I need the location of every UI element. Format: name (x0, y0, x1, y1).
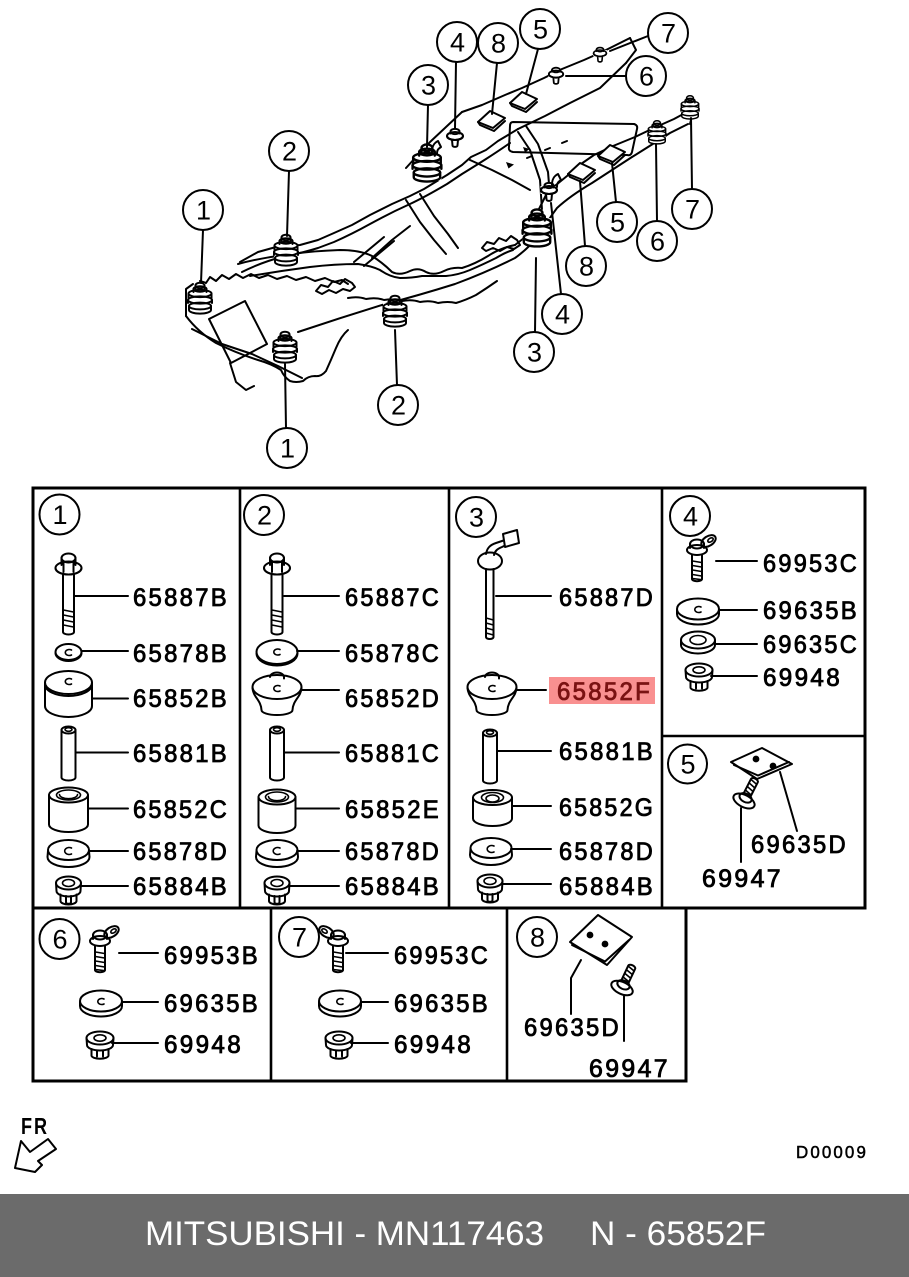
callout 1 front (183, 190, 223, 230)
svg-text:65852E: 65852E (345, 796, 441, 824)
svg-text:69635D: 69635D (751, 831, 848, 859)
leader 8 mid (580, 181, 585, 246)
cushion 65852G (473, 790, 512, 826)
highlight 65852F (549, 677, 655, 704)
footer gray bar (0, 1194, 909, 1277)
callout circle 3 (456, 497, 496, 537)
bracket hook 3 top (432, 141, 441, 154)
mount cushion 1 bottom (273, 332, 297, 363)
leader 69635B (719, 609, 757, 611)
cushion 65852F (468, 673, 517, 716)
svg-text:69635B: 69635B (763, 597, 859, 625)
leader 69948 (711, 675, 757, 677)
leader 65881C (284, 752, 339, 754)
frame far rail rear top flange (462, 38, 630, 112)
frame far rail rear end edge (626, 38, 636, 63)
screw 69947 (609, 960, 643, 998)
frame rear inner panel line (470, 160, 530, 190)
callout 8 top (478, 23, 518, 63)
svg-text:69635B: 69635B (394, 990, 490, 1018)
leader 69635D (780, 772, 797, 831)
svg-text:69953C: 69953C (394, 942, 490, 970)
leader 65887B (75, 595, 128, 597)
washer 65878D (48, 840, 90, 867)
divider col3/col4 (661, 488, 664, 908)
washer 69635B (677, 599, 719, 625)
plate 69635D (570, 915, 632, 965)
svg-text:N - 65852F: N - 65852F (590, 1215, 766, 1253)
svg-text:65887B: 65887B (133, 584, 229, 612)
frame rear rail tabs (527, 141, 567, 158)
svg-text:6: 6 (650, 227, 665, 257)
callout circle 4 (670, 496, 710, 536)
bolt 69953C (687, 540, 707, 582)
leader 69635B (122, 1001, 158, 1003)
svg-text:65878B: 65878B (133, 640, 229, 668)
callout circle 2 (244, 495, 284, 535)
pad plate 8 top (478, 111, 505, 131)
nut 69948 (326, 1032, 353, 1059)
leader 6 right (656, 144, 657, 221)
svg-text:8: 8 (579, 252, 594, 282)
svg-text:1: 1 (196, 196, 211, 226)
leader 69947 (740, 808, 742, 862)
divider cell6/7 (270, 908, 273, 1081)
spacer 65881B (483, 730, 497, 784)
svg-text:65852F: 65852F (557, 678, 652, 706)
callout 3 bottom (514, 332, 554, 372)
divider cell4/cell5 (662, 735, 865, 738)
leader 5 top (526, 49, 538, 94)
svg-text:65887D: 65887D (559, 584, 655, 612)
callout 5 top (520, 9, 560, 49)
svg-text:7: 7 (661, 19, 676, 49)
callout 8 mid (566, 246, 606, 286)
svg-text:69635D: 69635D (524, 1014, 621, 1042)
screw 69947 (731, 774, 766, 812)
frame front opening (209, 301, 267, 363)
frame near rail second edge (250, 250, 513, 278)
leader 65887D (496, 595, 551, 597)
svg-text:65878C: 65878C (345, 640, 441, 668)
leader 1 bottom (285, 364, 286, 428)
frame mid crossmember lower diagonal (372, 226, 410, 258)
nut 65884B (56, 877, 81, 905)
svg-text:65887C: 65887C (345, 584, 441, 612)
callout 5 right (597, 202, 637, 242)
frame front lower outline (186, 316, 348, 382)
leader 65878D (89, 850, 128, 852)
spacer 65881B (62, 727, 76, 781)
bolt 4 top (447, 129, 464, 147)
svg-text:3: 3 (527, 338, 542, 368)
leader 3 bottom (535, 258, 536, 332)
leader 7 top (610, 36, 648, 51)
leader 3 top (427, 105, 428, 147)
leader 65878D (511, 848, 551, 850)
svg-text:65884B: 65884B (345, 873, 441, 901)
svg-text:69635B: 69635B (164, 990, 260, 1018)
leader 65881B (497, 750, 551, 752)
svg-text:65852C: 65852C (133, 796, 229, 824)
divider cell7/8 (506, 908, 509, 1081)
leader 65852D (301, 689, 339, 691)
svg-text:65852G: 65852G (559, 794, 655, 822)
bolt 69953C (328, 931, 348, 973)
leader 8 top (492, 63, 497, 114)
frame cab bracket blob B (482, 236, 520, 251)
frame seat rail line (354, 237, 394, 266)
bolt 7 top (593, 48, 607, 62)
divider col1/col2 (239, 488, 242, 908)
frame near rail lower line rear (298, 124, 688, 332)
svg-text:69948: 69948 (394, 1031, 473, 1059)
svg-text:1: 1 (280, 434, 295, 464)
leader 65887C (284, 595, 339, 597)
table row2 outer box (33, 908, 686, 1081)
frame rear tip edge (687, 112, 692, 124)
callout 2 top (269, 131, 309, 171)
hook 4 mid (552, 174, 561, 187)
frame small mark 2 (523, 147, 530, 153)
svg-text:65881B: 65881B (133, 740, 229, 768)
washer 69635B (319, 991, 361, 1017)
svg-text:2: 2 (257, 501, 272, 531)
svg-text:4: 4 (555, 300, 570, 330)
cushion 65852D (253, 673, 302, 716)
leader 65852F (517, 689, 546, 691)
svg-text:4: 4 (683, 502, 698, 532)
leader 69948 (112, 1042, 158, 1044)
frame front tip (186, 284, 193, 316)
callout 7 right (672, 189, 712, 229)
svg-text:6: 6 (639, 62, 654, 92)
svg-text:2: 2 (282, 137, 297, 167)
leader 65878D (297, 850, 339, 852)
leader 65884B (289, 885, 339, 887)
leader 6 top (566, 75, 626, 77)
bolt 4 mid (541, 183, 558, 201)
nut 69948 (686, 664, 713, 691)
washer 65878D (470, 838, 512, 865)
leader 65884B (502, 883, 551, 885)
pad plate 5 top (510, 92, 537, 112)
leader 69635B (361, 1001, 388, 1003)
mount cushion 3 top (413, 144, 442, 181)
svg-text:65881B: 65881B (559, 738, 655, 766)
svg-text:69948: 69948 (763, 664, 842, 692)
svg-text:8: 8 (530, 923, 545, 953)
frame mid crossmember band (406, 194, 458, 254)
leader 4 top (455, 62, 456, 128)
svg-text:D00009: D00009 (796, 1142, 868, 1162)
leader 2 bottom (395, 330, 397, 385)
callout 7 top (648, 13, 688, 53)
svg-text:5: 5 (610, 208, 625, 238)
washer 65878C (257, 640, 298, 666)
svg-text:69947: 69947 (702, 865, 783, 893)
mount cushion 2 top (274, 235, 298, 266)
frame mid bracket outline (348, 281, 497, 303)
callout circle 5 (668, 745, 707, 784)
pad plate 8 mid (568, 163, 595, 183)
svg-text:65884B: 65884B (133, 873, 229, 901)
nut 65884B (478, 875, 503, 903)
svg-text:69948: 69948 (164, 1031, 243, 1059)
bolt 65887C (264, 554, 290, 635)
leader 65878C (297, 650, 339, 652)
callout 4 mid (542, 294, 582, 334)
leader 2 top (287, 171, 289, 236)
svg-text:2: 2 (391, 391, 406, 421)
leader 69635C (715, 643, 757, 645)
leader 65852C (88, 808, 128, 810)
washer 69635C (681, 632, 715, 654)
leader 5 right (612, 163, 616, 202)
callout 2 bottom (378, 385, 418, 425)
svg-text:65881C: 65881C (345, 740, 441, 768)
leader 69953B (119, 952, 158, 954)
plate 69635D (731, 748, 792, 779)
leader 7 right (691, 118, 692, 189)
svg-text:4: 4 (450, 28, 465, 58)
leader 65881B (76, 752, 128, 754)
svg-text:7: 7 (685, 195, 700, 225)
mount cushion 2 bottom (383, 296, 407, 327)
callout 4 top (437, 22, 477, 62)
mount 6 right (648, 121, 666, 144)
svg-text:5: 5 (533, 15, 548, 45)
frame cab bracket blob A (316, 279, 355, 294)
nut 65884B (265, 877, 290, 905)
svg-text:69953B: 69953B (164, 942, 260, 970)
bolt 65887D with bracket (478, 530, 519, 639)
cushion 65852C (49, 788, 88, 833)
nut 69948 (87, 1032, 114, 1059)
svg-text:65884B: 65884B (559, 873, 655, 901)
mount cushion 3 bottom (523, 209, 552, 246)
svg-text:69635C: 69635C (763, 631, 859, 659)
svg-text:MITSUBISHI - MN117463: MITSUBISHI - MN117463 (145, 1215, 544, 1253)
leader 4 mid (551, 203, 561, 294)
callout 3 top (408, 65, 448, 105)
frame front bracket outline (200, 274, 348, 284)
leader 65878B (82, 650, 128, 652)
leader 65852E (296, 808, 339, 810)
callout 6 top (626, 56, 666, 96)
svg-text:7: 7 (292, 923, 307, 953)
callout circle 1 (40, 495, 80, 535)
bolt 65887B (56, 554, 82, 635)
frame front crossmember inner line (192, 329, 302, 378)
leader 65884B (81, 885, 128, 887)
svg-text:8: 8 (491, 29, 506, 59)
callout 6 right (637, 221, 677, 261)
svg-text:65852B: 65852B (133, 685, 229, 713)
leader 69953C (716, 560, 757, 562)
svg-text:69947: 69947 (589, 1055, 670, 1083)
svg-text:1: 1 (52, 500, 67, 530)
spacer 65881C (270, 727, 284, 781)
leader 69948 (351, 1042, 388, 1044)
frame rear crossmember band (518, 126, 550, 210)
washer 65878D (256, 840, 298, 867)
cushion 65852E (259, 790, 296, 834)
frame far rail lower edge front (242, 143, 510, 272)
svg-text:3: 3 (469, 503, 484, 533)
FR direction arrow (15, 1139, 56, 1172)
cushion 65852B (45, 671, 92, 717)
frame rear cab panel edge (406, 112, 462, 168)
frame small direction mark (506, 162, 514, 169)
washer 65878B (56, 644, 82, 661)
frame front lower spur (230, 363, 254, 390)
callout circle 6 (40, 919, 80, 959)
svg-text:5: 5 (680, 750, 695, 780)
frame near rail kick-up to rear tip (515, 112, 687, 245)
svg-text:65878D: 65878D (133, 838, 229, 866)
bolt 6 top (548, 68, 563, 84)
leader 65852G (512, 805, 551, 807)
leader 1 front (201, 230, 203, 283)
pad plate 5 right (598, 145, 625, 165)
table row1 outer box (33, 488, 865, 908)
bolt 69953B (90, 931, 110, 973)
callout circle 7 (279, 917, 319, 957)
svg-text:3: 3 (421, 71, 436, 101)
svg-text:65878D: 65878D (559, 838, 655, 866)
frame near rail top edge (238, 245, 515, 274)
frame far rail top edge front (240, 129, 518, 262)
frame far rail rear bottom flange (518, 63, 626, 129)
svg-text:65852D: 65852D (345, 685, 441, 713)
leader 69947 (623, 996, 625, 1041)
svg-text:65878D: 65878D (345, 838, 441, 866)
mount cushion 1 front (188, 283, 212, 314)
frame rear deck panel (509, 122, 637, 155)
callout circle 8 (517, 917, 557, 957)
svg-text:FR: FR (21, 1113, 49, 1139)
callout 1 bottom (267, 428, 307, 468)
divider col2/col3 (448, 488, 451, 908)
washer 69635B (80, 991, 122, 1017)
leader 65852B (92, 698, 128, 700)
mount 7 right (681, 96, 699, 119)
leader 69953C (346, 952, 388, 954)
leader 69635D (571, 960, 581, 1014)
svg-text:69953C: 69953C (763, 550, 859, 578)
svg-text:6: 6 (52, 925, 67, 955)
